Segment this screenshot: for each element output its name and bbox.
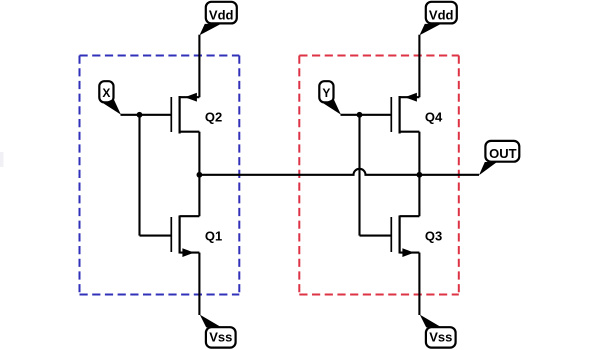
input flag Y <box>319 81 341 114</box>
wire Vdd to Q4 source <box>418 35 420 97</box>
wire Q3 source to Vss <box>418 253 420 315</box>
wire Q4 drain to output node <box>418 132 420 175</box>
edge artifact <box>0 152 4 167</box>
nmos Q3 <box>391 216 442 258</box>
output flag OUT <box>479 141 519 175</box>
svg-text:Vdd: Vdd <box>429 7 454 22</box>
wire Q1 drain to output node <box>198 175 200 216</box>
wire junction to Q4 gate <box>360 114 391 116</box>
power flag Vss (left) <box>200 315 236 348</box>
node output left <box>197 172 203 178</box>
wire Q2 drain to output node <box>198 132 200 175</box>
wire Vdd to Q2 source <box>198 35 200 97</box>
node Y junction <box>357 112 363 118</box>
wire junction down <box>138 115 140 236</box>
input flag X <box>99 81 121 114</box>
node output right <box>417 172 423 178</box>
power flag Vss (right) <box>420 315 456 348</box>
wire junction to Q2 gate <box>140 114 171 116</box>
svg-text:X: X <box>102 86 110 100</box>
wire to Q1 gate <box>140 235 171 237</box>
power flag Vdd (right) <box>420 2 457 35</box>
wire to Q3 gate <box>360 235 391 237</box>
blue dashed box (left inverter) <box>80 56 240 295</box>
red dashed box (right inverter) <box>299 56 459 295</box>
output wire with hop over Y wire <box>199 169 479 175</box>
wire Y to junction <box>341 114 360 116</box>
svg-text:Q4: Q4 <box>425 110 443 125</box>
svg-text:Vss: Vss <box>429 329 452 344</box>
power flag Vdd (left) <box>200 2 237 35</box>
nmos Q1 <box>171 216 222 258</box>
pmos Q2 <box>171 93 222 134</box>
svg-text:Vdd: Vdd <box>209 7 234 22</box>
svg-text:Q3: Q3 <box>425 228 442 243</box>
svg-text:Y: Y <box>322 86 330 100</box>
pmos Q4 <box>391 93 443 134</box>
wire X to junction <box>121 114 140 116</box>
wire Q1 source to Vss <box>198 253 200 315</box>
node X junction <box>137 112 143 118</box>
svg-text:Q1: Q1 <box>205 228 222 243</box>
svg-text:Vss: Vss <box>209 329 232 344</box>
svg-text:Q2: Q2 <box>205 110 222 125</box>
wire Q3 drain to output node <box>418 175 420 216</box>
wire junction down to Q3 gate level <box>358 115 360 236</box>
svg-text:OUT: OUT <box>489 146 517 161</box>
